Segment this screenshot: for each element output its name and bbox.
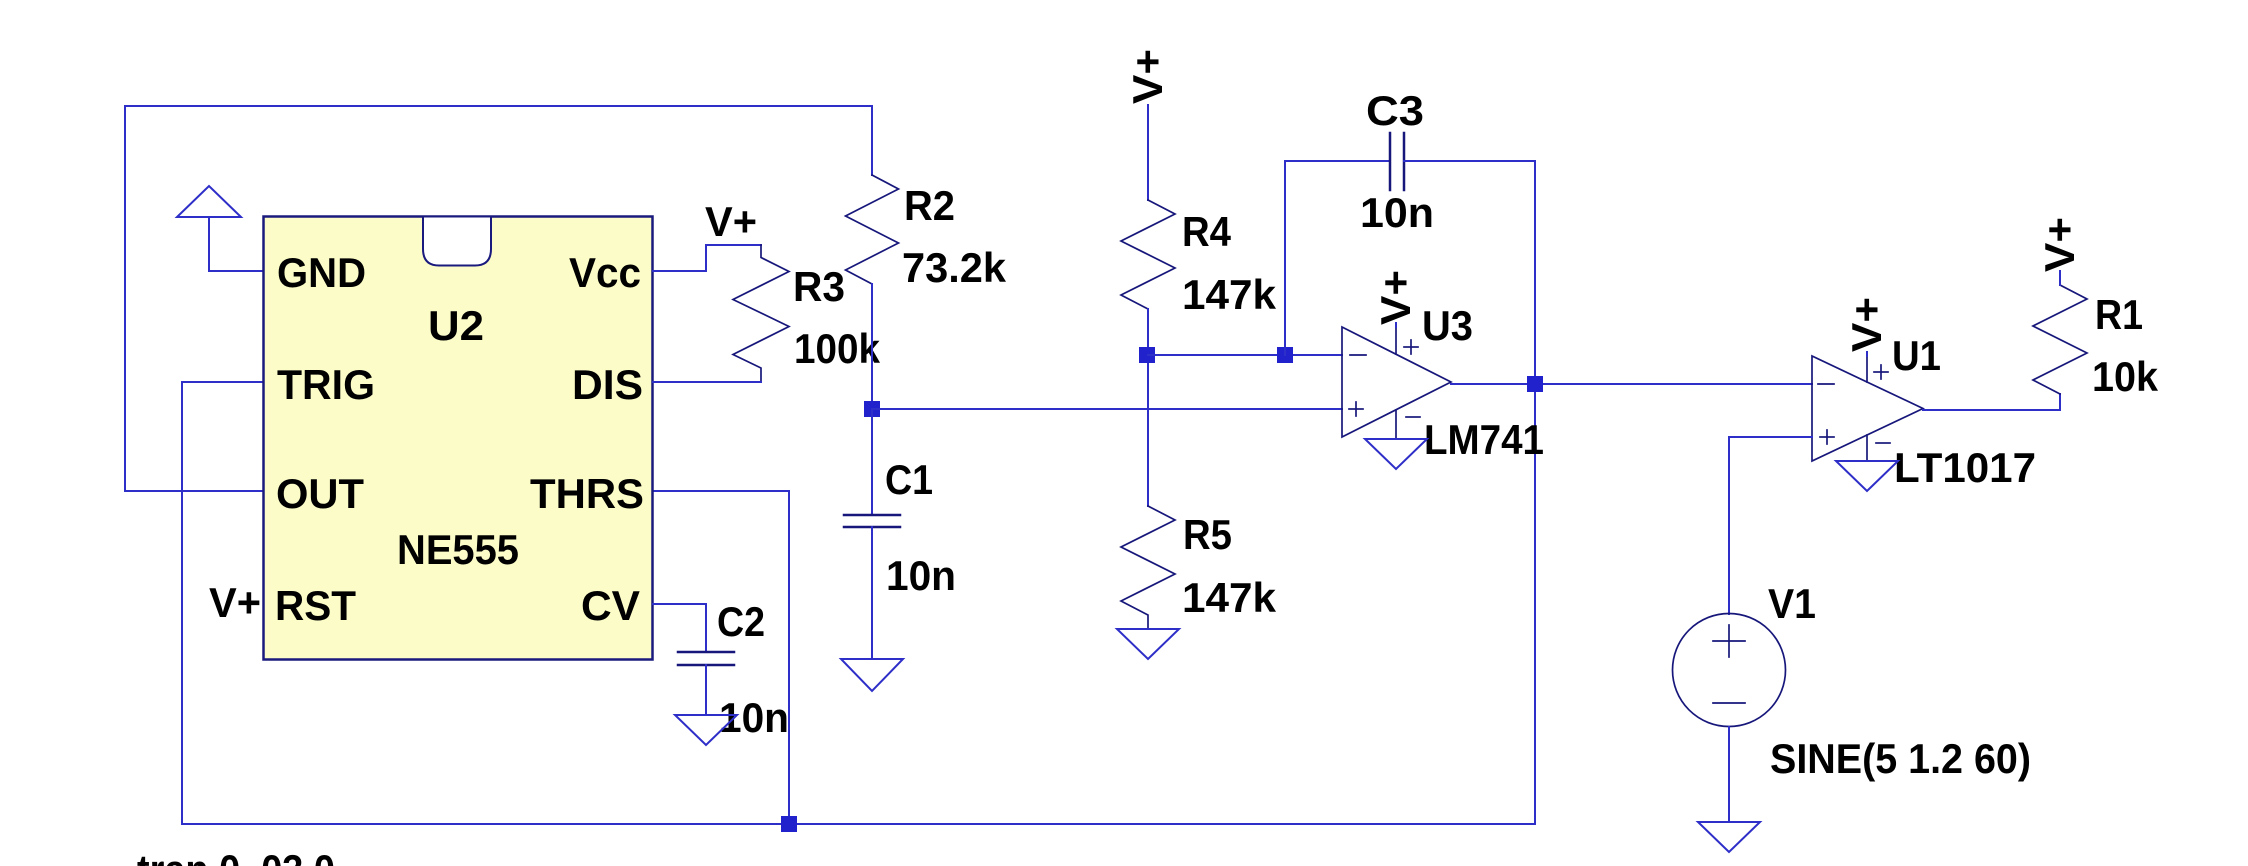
op-amp U1 LT1017 <box>1812 356 1923 461</box>
junction C3 left <box>1277 347 1293 363</box>
junction R2/C1 node <box>864 401 880 417</box>
resistor R4 <box>1121 200 1175 309</box>
svg-text:V+: V+ <box>705 198 757 245</box>
capacitor C1 <box>844 409 900 659</box>
svg-text:RST: RST <box>275 582 356 629</box>
voltage source V1 <box>1673 614 1786 727</box>
junction R4/R5 node <box>1139 347 1155 363</box>
wire R3 bottom to DIS <box>653 381 761 383</box>
ground U3 <box>1365 439 1427 469</box>
svg-text:R5: R5 <box>1183 511 1232 558</box>
ground C2 <box>675 715 737 745</box>
wire Vcc step to R3 top <box>653 245 761 271</box>
resistor R5 <box>1121 506 1175 629</box>
capacitor C3 feedback <box>1285 133 1535 384</box>
svg-text:C2: C2 <box>717 598 765 645</box>
resistor R1 <box>2033 285 2087 394</box>
ground C1 <box>841 659 903 691</box>
svg-text:GND: GND <box>277 249 366 296</box>
wire TRIG down to bottom rail <box>182 382 1535 824</box>
ground (up arrow at GND pin) <box>177 186 263 271</box>
svg-text:R4: R4 <box>1182 208 1232 255</box>
svg-text:NE555: NE555 <box>397 526 519 573</box>
svg-text:V+: V+ <box>2036 217 2083 272</box>
capacitor C2 <box>678 652 734 715</box>
svg-text:C1: C1 <box>885 456 933 503</box>
wire R4 to R5 <box>1147 309 1149 506</box>
svg-text:100k: 100k <box>794 325 881 372</box>
wire node to U3 plus input <box>872 408 1342 410</box>
power flag V+ above U3 <box>1372 270 1419 327</box>
svg-text:V+: V+ <box>1372 270 1419 325</box>
junction bottom rail <box>781 816 797 832</box>
wire node to U3 minus input <box>1148 354 1342 356</box>
svg-text:LT1017: LT1017 <box>1894 444 2036 491</box>
wire U1 output to R1 <box>1923 394 2060 410</box>
svg-text:TRIG: TRIG <box>277 361 375 408</box>
svg-text:LM741: LM741 <box>1424 416 1544 463</box>
svg-text:V+: V+ <box>1843 297 1890 352</box>
power flag V+ above R1 <box>2036 217 2083 285</box>
junction U3 output node <box>1527 376 1543 392</box>
wire R2 bottom to junction <box>871 284 873 409</box>
wire CV to C2 <box>653 604 706 652</box>
svg-text:147k: 147k <box>1182 574 1277 621</box>
wire THRS down to bottom rail <box>653 491 789 824</box>
wire V1 bottom <box>1728 727 1730 822</box>
ground U1 <box>1836 461 1898 491</box>
svg-text:10n: 10n <box>1360 189 1434 236</box>
resistor R3 <box>733 245 789 382</box>
svg-text:V1: V1 <box>1768 580 1816 627</box>
svg-text:R3: R3 <box>793 263 845 310</box>
resistor R2 <box>846 175 899 284</box>
svg-text:SINE(5 1.2 60): SINE(5 1.2 60) <box>1770 735 2031 782</box>
wire U3 output <box>1451 383 1812 385</box>
svg-text:10n: 10n <box>719 694 789 741</box>
svg-text:tran 0 .03 0: tran 0 .03 0 <box>137 846 335 866</box>
svg-text:73.2k: 73.2k <box>902 244 1007 291</box>
svg-text:U3: U3 <box>1422 302 1473 349</box>
power flag V+ above U1 <box>1843 297 1890 356</box>
svg-text:DIS: DIS <box>572 361 643 408</box>
svg-text:Vcc: Vcc <box>569 249 641 296</box>
svg-text:CV: CV <box>581 582 640 629</box>
ground V1 <box>1698 822 1760 852</box>
svg-text:R2: R2 <box>904 182 955 229</box>
svg-text:THRS: THRS <box>530 470 644 517</box>
wire V1 to U1 plus input <box>1729 437 1812 614</box>
ground R5 <box>1117 629 1179 659</box>
svg-text:10k: 10k <box>2092 353 2159 400</box>
svg-text:U1: U1 <box>1892 332 1941 379</box>
svg-text:R1: R1 <box>2095 291 2143 338</box>
power flag V+ above R4 <box>1124 49 1171 200</box>
IC U2 NE555 box <box>264 217 653 660</box>
svg-text:U2: U2 <box>428 302 484 349</box>
wire top loop from OUT to R2 top <box>125 106 872 491</box>
svg-text:10n: 10n <box>886 552 956 599</box>
svg-text:C3: C3 <box>1366 87 1424 134</box>
svg-text:OUT: OUT <box>276 470 364 517</box>
svg-text:V+: V+ <box>209 579 261 626</box>
svg-text:147k: 147k <box>1182 271 1277 318</box>
svg-text:V+: V+ <box>1124 49 1171 104</box>
op-amp U3 LM741 <box>1342 327 1451 439</box>
